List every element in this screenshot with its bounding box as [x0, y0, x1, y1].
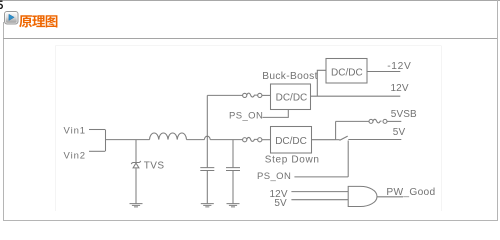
U3 output wire	[312, 139, 336, 141]
PW_Good output wire	[377, 196, 403, 198]
5VSB wire end	[387, 120, 401, 122]
svg-text:Buck-Boost: Buck-Boost	[262, 71, 318, 82]
svg-text:12V: 12V	[391, 83, 409, 94]
wire main bus to connector	[210, 139, 242, 141]
title icon button (play)	[4, 11, 19, 25]
PS_ON wire to U1	[263, 110, 289, 118]
ground under C1	[201, 204, 214, 207]
connector J1 (to Step Down)	[243, 138, 247, 142]
inductor L1	[150, 133, 187, 140]
svg-text:PW_Good: PW_Good	[386, 187, 435, 198]
svg-text:5VSB: 5VSB	[391, 109, 417, 120]
connector J2 (to Buck-Boost)	[243, 93, 247, 97]
title text 原理图	[0, 0, 70, 32]
faint schematic image top edge	[56, 45, 442, 47]
-12V DC/DC converter U2 box	[326, 59, 367, 84]
5VSB wire	[336, 120, 369, 122]
svg-text:Vin1: Vin1	[64, 126, 86, 137]
wire connector to Buck-Boost box	[262, 94, 271, 96]
wire Vin1 stub	[89, 129, 105, 131]
12V sense wire to gate	[291, 191, 348, 193]
svg-text:Step Down: Step Down	[265, 154, 320, 165]
wire C2 from bus	[232, 140, 234, 168]
outer frame top border	[0, 0, 500, 1]
wire feed to -12V converter	[317, 70, 326, 96]
5V sense wire to gate	[291, 199, 348, 201]
wire C1 to ground	[206, 171, 208, 204]
svg-text:5V: 5V	[274, 198, 287, 209]
faint schematic image left and right edges	[56, 46, 442, 212]
svg-text:TVS: TVS	[144, 161, 165, 172]
AND gate U4	[348, 186, 377, 206]
svg-text:Vin2: Vin2	[64, 151, 86, 162]
svg-text:DC/DC: DC/DC	[331, 67, 363, 78]
wire TVS branch	[135, 140, 137, 163]
svg-text:DC/DC: DC/DC	[275, 136, 307, 147]
wire main bus left	[106, 139, 150, 141]
outer frame left border	[3, 22, 4, 221]
title separator line	[3, 38, 497, 39]
glyph 原	[19, 15, 32, 27]
clipped stray glyph "5" at top-left edge	[0, 0, 4, 11]
outer frame bottom border	[3, 220, 498, 221]
-12V output wire	[367, 71, 400, 73]
node branch vertical (bus to cap C1 / buck-boost feed)	[206, 95, 208, 167]
svg-text:-12V: -12V	[387, 61, 411, 72]
svg-text:PS_ON: PS_ON	[229, 111, 263, 122]
wire C2 to ground	[232, 171, 234, 204]
capacitor C2 plates	[226, 168, 240, 171]
wire main bus after inductor	[187, 139, 205, 141]
wire connector to Step Down box	[262, 139, 271, 141]
12V rail from U1	[311, 95, 401, 97]
ground under TVS	[130, 204, 143, 207]
wire Vin2 stub	[89, 150, 105, 152]
svg-text:DC/DC: DC/DC	[276, 92, 308, 103]
svg-text:5V: 5V	[393, 127, 406, 138]
Step Down DC/DC converter U3 box	[271, 127, 312, 154]
5V wire before switch	[336, 139, 340, 141]
svg-text:PS_ON: PS_ON	[257, 171, 291, 182]
switch SW1 lever	[340, 136, 348, 140]
wire Vin join vertical	[105, 130, 107, 152]
wire hop over branch	[204, 136, 210, 139]
wire switch control vertical	[347, 141, 349, 177]
wire TVS to ground	[135, 168, 137, 203]
glyph 理	[32, 15, 45, 27]
glyph 图	[46, 15, 58, 27]
PS_ON lower wire	[294, 176, 348, 178]
Buck-Boost DC/DC converter U1 box	[271, 84, 311, 110]
connector J3 (5VSB)	[369, 119, 373, 123]
5V wire after switch	[348, 139, 401, 141]
outer frame right border	[497, 0, 498, 221]
node 5VSB branch	[335, 121, 337, 139]
wire upper branch horizontal	[207, 94, 242, 96]
ground under C2	[227, 204, 240, 207]
TVS diode D1	[131, 161, 141, 164]
capacitor C1 plates	[200, 168, 214, 171]
